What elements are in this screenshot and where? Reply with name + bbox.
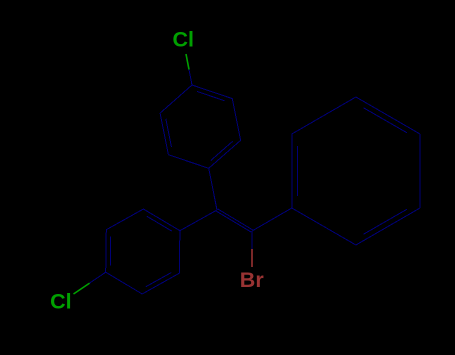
svg-text:Cl: Cl	[50, 290, 72, 314]
svg-text:Cl: Cl	[172, 28, 194, 52]
svg-text:Br: Br	[240, 268, 265, 292]
